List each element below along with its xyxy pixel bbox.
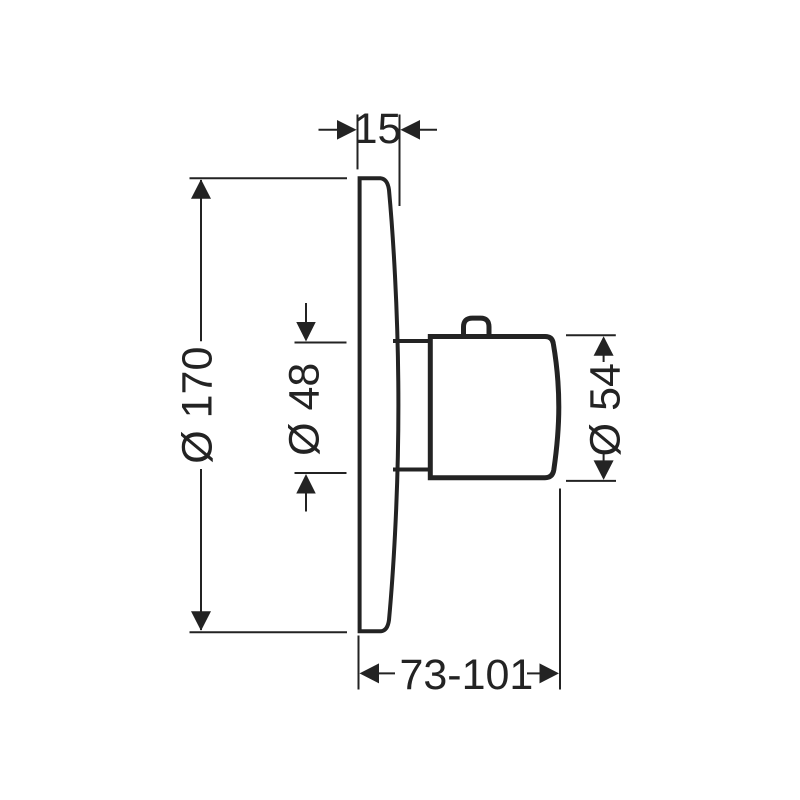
dim Ø48: top tail line: [305, 303, 307, 324]
dim 73-101: right tail line: [527, 672, 541, 674]
dim 73-101: left extension line: [358, 636, 360, 690]
dim Ø170: bottom extension line: [190, 631, 348, 633]
dim Ø48: top arrow (pointing down): [296, 322, 316, 342]
dim Ø170: top extension line: [190, 177, 348, 179]
dim Ø54: top tail line: [603, 338, 605, 362]
dim Ø54: top extension line: [566, 334, 616, 336]
dim Ø54: bottom tail line: [603, 452, 605, 478]
svg-text:Ø 54: Ø 54: [582, 363, 630, 456]
dim 15: left extension line: [357, 115, 359, 170]
stem top line (Ø48 cylinder): [393, 339, 430, 343]
dim 15: left tail line: [319, 129, 339, 131]
dim Ø48: bottom tail line: [305, 492, 307, 512]
dim Ø170: dimension line upper segment: [200, 180, 202, 341]
svg-text:Ø 48: Ø 48: [281, 363, 329, 456]
dim Ø54: bottom extension line: [566, 480, 616, 482]
svg-text:73-101: 73-101: [399, 651, 533, 699]
dim Ø170: top arrow (pointing up): [191, 179, 211, 199]
dim 15: right tail line: [419, 129, 437, 131]
dim Ø54: top arrow (pointing up): [594, 336, 614, 356]
dim Ø48: bottom extension line: [295, 472, 347, 474]
knob top button/tab: [464, 318, 490, 336]
dim 15: right extension line: [399, 115, 401, 207]
dim Ø170: dimension line lower segment: [200, 469, 202, 630]
dim Ø48: bottom arrow (pointing up): [296, 474, 316, 494]
dim Ø170: bottom arrow (pointing down): [191, 611, 211, 631]
dim 73-101: right extension line: [559, 489, 561, 690]
dim 73-101: right arrow (pointing right): [540, 663, 560, 683]
dim 73-101: left tail line: [377, 672, 395, 674]
dim 73-101: left arrow (pointing left): [360, 663, 380, 683]
dim 15: left arrow (pointing right): [337, 120, 357, 140]
dim 15: right arrow (pointing left): [400, 120, 420, 140]
svg-text:Ø 170: Ø 170: [174, 347, 222, 464]
knob body: [430, 337, 559, 478]
escutcheon plate (side view): [358, 178, 399, 631]
stem bottom line (Ø48 cylinder): [393, 468, 430, 472]
dim Ø54: bottom arrow (pointing down): [594, 460, 614, 480]
dim Ø48: top extension line: [295, 342, 347, 344]
svg-text:15: 15: [354, 105, 402, 153]
